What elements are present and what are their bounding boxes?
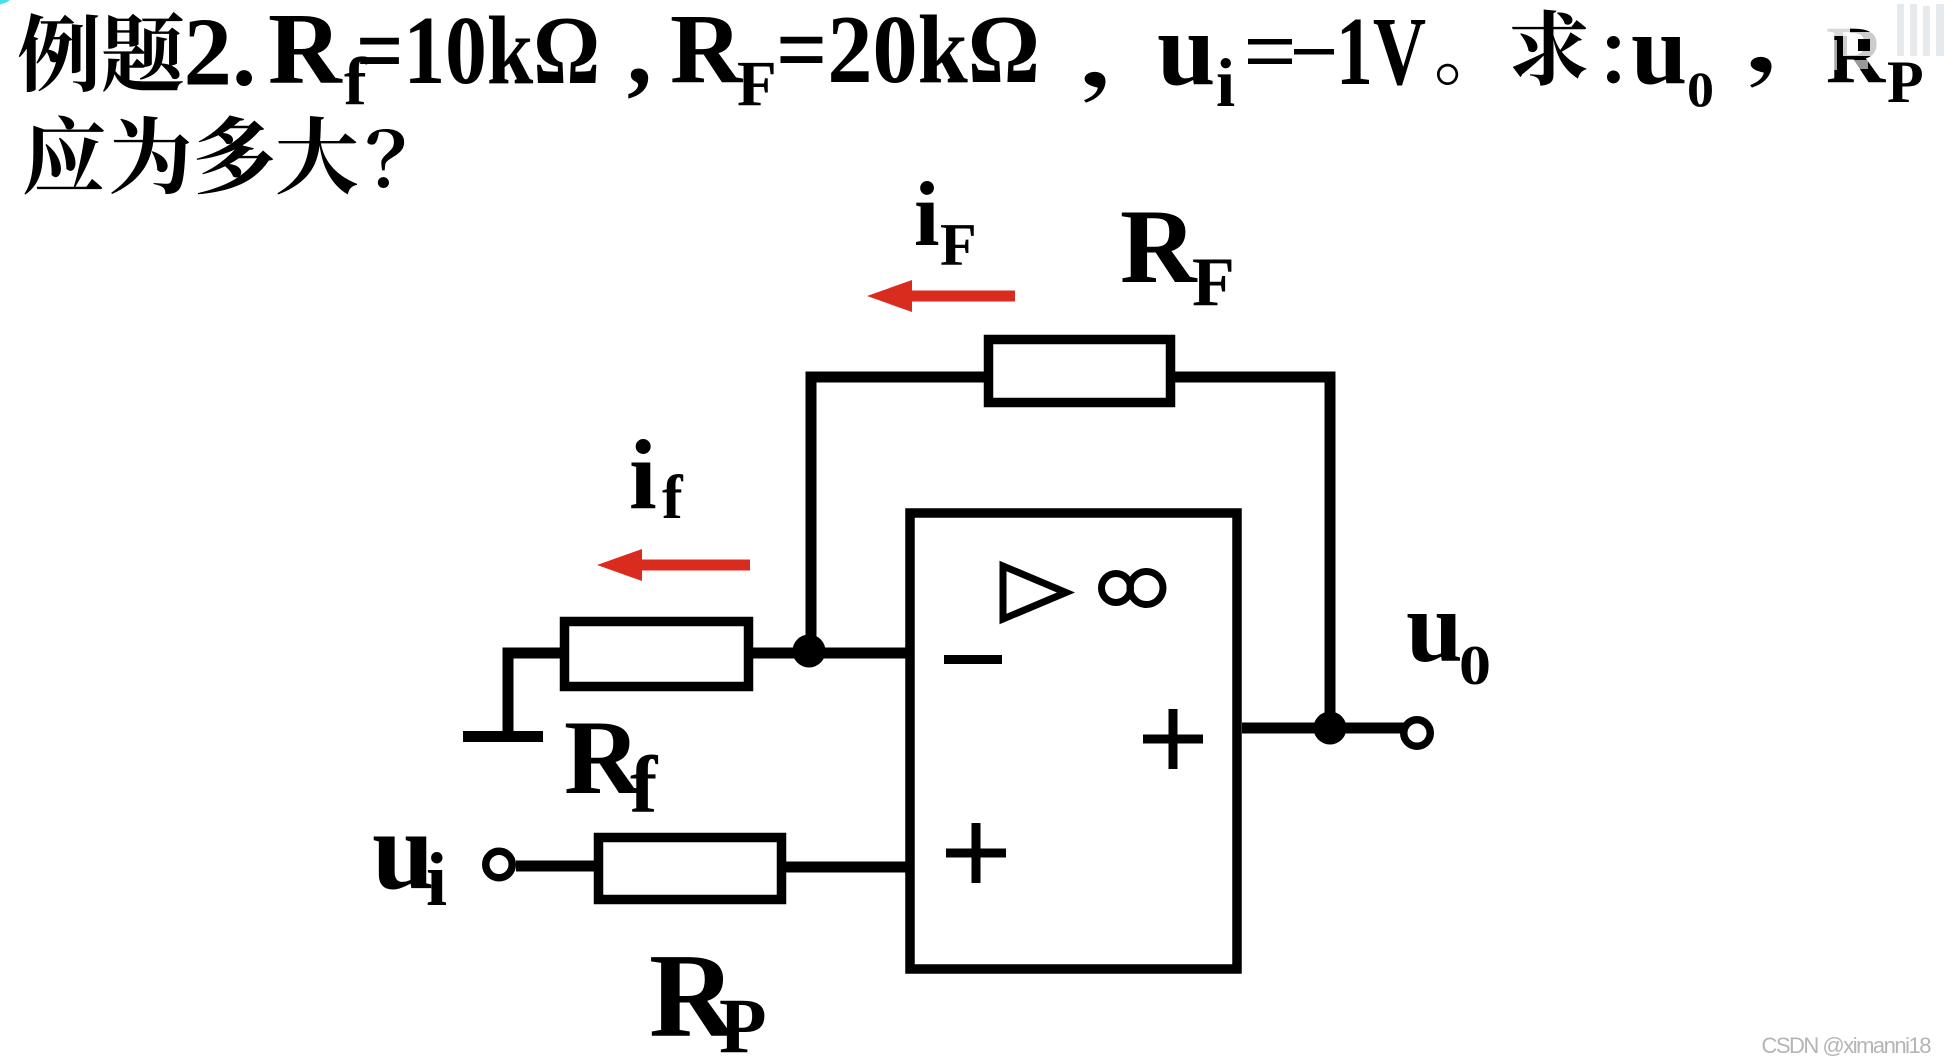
svg-text:R: R [1120,188,1198,305]
svg-text:R: R [268,0,343,106]
svg-text:P: P [1887,49,1924,115]
svg-text:=20kΩ: =20kΩ [776,0,1040,103]
svg-text:,: , [627,0,652,105]
svg-text:2.: 2. [184,0,257,106]
svg-text:F: F [1192,244,1235,321]
svg-text:u: u [1157,0,1215,107]
svg-text:0: 0 [1687,61,1714,117]
svg-text:i: i [1216,45,1235,121]
svg-text:R: R [670,0,744,104]
svg-text:F: F [737,48,777,120]
svg-text:f: f [662,464,684,532]
svg-text:F: F [940,212,977,278]
svg-text:u: u [1631,0,1687,106]
svg-text:0: 0 [1459,635,1491,697]
svg-text:u: u [1406,571,1463,684]
svg-text:i: i [914,163,940,265]
svg-text:P: P [719,982,767,1062]
svg-text:u: u [372,789,434,913]
svg-text:i: i [426,838,447,922]
svg-text:1V: 1V [1336,0,1426,105]
svg-text:i: i [629,419,657,530]
svg-text:=10kΩ: =10kΩ [356,0,600,104]
svg-text:f: f [630,739,659,830]
svg-text:CSDN @ximanni18: CSDN @ximanni18 [1761,1033,1931,1058]
